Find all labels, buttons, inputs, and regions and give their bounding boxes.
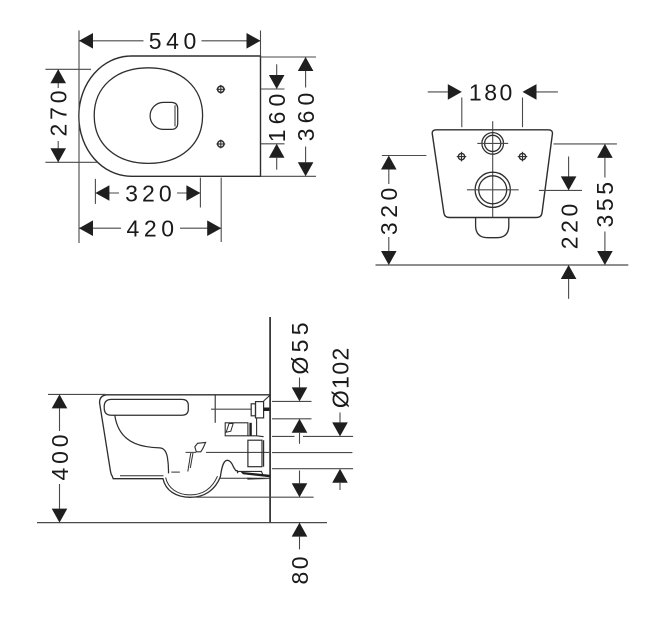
rear inlet cross line — [477, 142, 508, 144]
top extension line — [554, 143, 617, 145]
svg-text:Ø55: Ø55 — [287, 323, 313, 375]
support bracket wedge upper — [241, 472, 270, 478]
top extension line — [261, 56, 317, 58]
arrowhead up — [50, 69, 66, 83]
leader line from label — [339, 413, 341, 423]
tail line below baseline — [568, 279, 570, 299]
tail line below — [299, 433, 301, 444]
dimension 220 (rear outlet height) — [539, 157, 583, 299]
arrowhead down — [561, 176, 577, 190]
cistern box step — [248, 418, 264, 437]
inlet connector flange — [251, 404, 255, 416]
dimension D102 (outlet pipe) — [272, 348, 353, 490]
arrowhead down — [50, 148, 66, 162]
top edge chamfer — [264, 396, 270, 401]
dim line left segment — [79, 40, 144, 42]
right extension line — [522, 98, 524, 128]
svg-text:160: 160 — [264, 94, 290, 143]
value label 320 — [376, 188, 402, 236]
inlet connector body — [256, 402, 264, 418]
cistern box divider — [249, 423, 251, 436]
dim line top segment — [388, 170, 390, 185]
arrowhead left — [79, 33, 93, 49]
svg-text:400: 400 — [47, 435, 73, 481]
dim line right segment — [202, 40, 261, 42]
rear outlet cross line — [467, 189, 519, 191]
arrowhead left — [79, 220, 93, 236]
arrowhead down — [292, 387, 308, 401]
svg-text:420: 420 — [127, 216, 175, 242]
tail line below — [299, 537, 301, 550]
left extension line (shared with 420) — [78, 31, 80, 244]
arrowhead down — [269, 75, 285, 89]
rear fixing hole left — [457, 152, 467, 162]
dim line left segment — [428, 91, 448, 93]
rear outlet circle — [475, 172, 510, 207]
rear outlet bump — [476, 218, 509, 238]
svg-text:Ø102: Ø102 — [327, 348, 353, 409]
dim line left segment — [79, 227, 121, 229]
rear inlet circle — [482, 133, 504, 155]
svg-text:270: 270 — [46, 91, 72, 137]
dim line top segment — [59, 408, 61, 431]
arrowhead left — [95, 185, 109, 201]
value label 220 — [556, 204, 582, 250]
dim line bottom segment — [388, 237, 390, 251]
dim line top segment — [568, 157, 570, 177]
rear wall baseline — [376, 264, 629, 266]
dimension 420 (plan front to fixing holes) — [79, 178, 221, 242]
svg-text:355: 355 — [592, 182, 618, 228]
trap inner curve (U) — [166, 476, 218, 495]
fixing hole marker bottom (plan) — [216, 140, 225, 149]
dimension 360 (plan rear width) — [261, 57, 320, 176]
bottom extension line — [45, 161, 97, 163]
dimension 80 (outlet below floor) — [191, 471, 314, 585]
right extension line — [220, 178, 222, 242]
top extension line — [45, 68, 91, 70]
inlet axis line (side) — [211, 408, 251, 410]
top extension line — [191, 496, 314, 498]
arrowhead right — [207, 220, 221, 236]
fixing hole marker top (plan) — [216, 85, 225, 94]
arrowhead right — [186, 185, 200, 201]
top extension line right segment — [303, 435, 353, 437]
box inner slant detail — [226, 423, 233, 432]
cistern box under inlet — [225, 423, 248, 436]
dimension 320 (plan seat opening) — [95, 178, 200, 208]
dim line right segment — [180, 227, 221, 229]
dim line right segment — [177, 192, 200, 194]
top extension line — [261, 88, 285, 90]
dimension 400 (side height) — [47, 394, 106, 522]
dim line bottom segment — [276, 158, 278, 170]
arrowhead down — [597, 251, 613, 265]
arrowhead up — [298, 57, 314, 71]
dim line lower segment — [604, 232, 606, 252]
arrowhead up — [561, 265, 577, 279]
flush outlet inner line (plan) — [174, 105, 176, 126]
top extension line — [48, 393, 106, 395]
dim line bottom segment — [305, 147, 307, 163]
arrowhead up — [381, 156, 397, 170]
trap inner wall curves — [188, 453, 193, 472]
tail line below — [339, 483, 341, 490]
rear vertical centerline — [492, 121, 494, 217]
svg-text:540: 540 — [149, 28, 197, 54]
toilet side outline — [100, 395, 270, 498]
dimension 540 (plan overall depth) — [79, 28, 261, 243]
wall line — [269, 317, 271, 523]
left extension line — [461, 98, 463, 128]
value label 355 — [592, 182, 618, 228]
arrowhead up — [292, 523, 308, 537]
outlet axis line (side) — [186, 451, 353, 453]
dim line bottom segment — [57, 141, 59, 162]
ceramic seam line — [214, 395, 216, 423]
value label 360 — [293, 93, 319, 142]
rear fixing hole right — [518, 152, 528, 162]
arrowhead up — [292, 419, 308, 433]
leader line from label — [299, 378, 301, 388]
bracket bottom line — [219, 477, 270, 479]
arrowhead down — [332, 422, 348, 436]
value label D102 — [327, 348, 353, 409]
value label 160 — [264, 94, 290, 143]
top extension line — [539, 189, 582, 191]
seat profile rounded rect — [104, 399, 188, 415]
arrowhead up — [52, 394, 68, 408]
value label 400 — [47, 435, 73, 481]
top extension line left segment — [272, 435, 295, 437]
svg-text:320: 320 — [125, 180, 172, 206]
dimension 270 (plan bowl width) — [45, 69, 97, 162]
arrowhead right — [247, 33, 261, 49]
right extension line — [199, 178, 201, 208]
top extension line — [382, 155, 427, 157]
arrowhead up — [269, 144, 285, 158]
right extension line — [260, 31, 262, 57]
flush outlet shape (plan) — [150, 102, 178, 129]
dim line top segment — [57, 69, 59, 88]
outlet pipe box outer edge — [263, 440, 265, 467]
leader line above — [299, 471, 301, 484]
outlet pipe box — [248, 440, 262, 467]
dimension 355 (rear inlet height) — [554, 144, 619, 265]
svg-text:80: 80 — [287, 557, 313, 585]
arrowhead down — [381, 251, 397, 265]
svg-text:220: 220 — [556, 204, 582, 250]
bowl inner profile curve — [115, 415, 169, 473]
svg-text:180: 180 — [469, 79, 512, 105]
dimension D55 (inlet pipe) — [272, 323, 313, 444]
dimension 320 (rear hole height) — [376, 156, 426, 266]
bottom extension line — [261, 175, 317, 177]
arrowhead right — [448, 84, 462, 100]
support bracket wedge lower — [247, 478, 270, 480]
value label 270 — [46, 91, 72, 137]
bottom extension line — [272, 418, 312, 420]
bottom extension line — [272, 468, 353, 470]
toilet foot inner line — [120, 475, 164, 477]
toilet outer outline (plan) — [79, 56, 261, 176]
dim line bottom segment — [59, 484, 61, 509]
dim line left segment — [95, 192, 119, 194]
dimension 180 (rear hole spacing) — [428, 79, 558, 127]
dim line top segment — [276, 64, 278, 75]
arrowhead up — [597, 144, 613, 158]
bottom extension line — [261, 143, 285, 145]
inlet wall stub — [264, 408, 270, 412]
arrowhead down — [298, 162, 314, 176]
value label D55 — [287, 323, 313, 375]
left extension line — [94, 179, 96, 204]
arrowhead down — [52, 509, 68, 523]
dim line right segment — [537, 91, 558, 93]
water spreader flag — [195, 442, 206, 451]
dim line top segment — [305, 71, 307, 88]
svg-text:320: 320 — [376, 188, 402, 236]
dimension 160 (plan hole spacing) — [261, 64, 290, 169]
dim line upper segment — [604, 158, 606, 178]
svg-text:360: 360 — [293, 93, 319, 142]
arrowhead down — [292, 483, 308, 497]
floor baseline (side view) — [37, 522, 327, 524]
arrowhead left — [523, 84, 537, 100]
top extension line — [272, 400, 312, 402]
bracket shelf line — [238, 471, 263, 475]
arrowhead up — [332, 469, 348, 483]
seat opening inner oval (plan) — [94, 68, 202, 164]
toilet rear body (trapezoid) — [432, 130, 552, 218]
trap waterline segment — [171, 471, 180, 473]
value label 80 — [287, 557, 313, 585]
